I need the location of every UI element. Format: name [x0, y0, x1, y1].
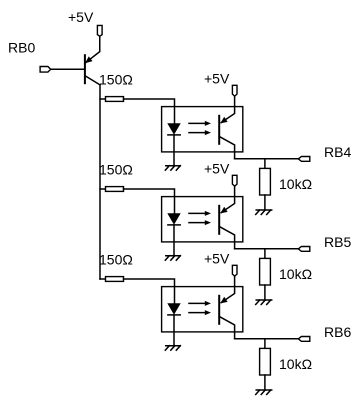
opto1 light arrow 2 — [189, 130, 211, 135]
wire: +5V to opto1 collector — [221, 96, 234, 122]
wire: 150Ω to opto3 LED anode — [124, 279, 175, 304]
optocoupler opto3 body — [162, 287, 243, 332]
opto1 LED diode — [167, 123, 180, 135]
power connector +5V (top) — [97, 25, 102, 36]
wire: output node to 10kΩ (row 2) — [264, 249, 266, 259]
svg-text:10kΩ: 10kΩ — [279, 266, 312, 282]
opto2 light arrow 1 — [189, 211, 211, 216]
svg-text:RB4: RB4 — [324, 144, 351, 160]
wire: 150Ω to opto1 LED anode — [124, 99, 175, 124]
wire: 150Ω to opto2 LED anode — [124, 189, 175, 214]
ground (row 2 pull-down) — [256, 300, 272, 305]
wire: opto2 LED cathode to ground — [173, 225, 175, 256]
port connector RB6 — [298, 337, 310, 342]
opto1 light arrow 1 — [189, 121, 211, 126]
opto3 collector arrow — [220, 297, 227, 304]
port connector RB4 — [298, 157, 310, 162]
opto1 emitter lead — [219, 136, 234, 158]
opto3 light arrow 2 — [189, 310, 211, 315]
wire: bus to 150Ω resistor (row 1) — [100, 98, 106, 100]
wire: opto3 LED cathode to ground — [173, 315, 175, 346]
wire: bus to 150Ω resistor (row 3) — [100, 278, 106, 280]
wire: bus to 150Ω resistor (row 2) — [100, 188, 106, 190]
svg-text:+5V: +5V — [204, 250, 230, 266]
opto2 emitter lead — [219, 226, 234, 248]
svg-text:150Ω: 150Ω — [99, 72, 133, 88]
svg-text:+5V: +5V — [204, 70, 230, 86]
wire: RB0 to Q1 base — [51, 68, 85, 70]
wire: +5V connector to Q1 emitter — [86, 36, 100, 62]
wire: opto2 output to RB5 — [235, 248, 298, 250]
wire: opto3 output to RB6 — [235, 338, 298, 340]
svg-text:RB6: RB6 — [324, 324, 351, 340]
power connector +5V (row 3) — [232, 265, 237, 276]
svg-text:10kΩ: 10kΩ — [279, 356, 312, 372]
wire: +5V to opto2 collector — [221, 186, 234, 212]
svg-text:10kΩ: 10kΩ — [279, 176, 312, 192]
opto2 LED cathode bar — [168, 224, 180, 226]
opto3 phototransistor base bar — [218, 295, 220, 325]
opto1 LED cathode bar — [168, 134, 180, 136]
transistor Q1 emitter arrow — [85, 56, 93, 63]
port connector RB0 — [40, 67, 51, 73]
opto3 LED cathode bar — [168, 314, 180, 316]
wire: opto1 LED cathode to ground — [173, 135, 175, 166]
wire: collector bus — [99, 85, 101, 279]
ground (opto3 LED) — [165, 346, 180, 351]
opto2 phototransistor base bar — [218, 205, 220, 235]
opto2 LED diode — [167, 213, 180, 225]
wire: opto1 output to RB4 — [235, 158, 298, 160]
ground (row 1 pull-down) — [256, 210, 272, 215]
opto2 light arrow 2 — [189, 220, 211, 225]
opto2 collector arrow — [220, 207, 227, 214]
wire: +5V to opto3 collector — [221, 276, 234, 302]
resistor 10kΩ (row 3) — [260, 348, 271, 375]
ground (opto2 LED) — [165, 256, 180, 261]
resistor 150Ω (row 1) — [106, 97, 124, 102]
opto1 collector arrow — [220, 117, 227, 124]
wire: output node to 10kΩ (row 3) — [264, 339, 266, 349]
svg-text:+5V: +5V — [204, 160, 230, 176]
svg-text:+5V: +5V — [68, 9, 94, 25]
resistor 150Ω (row 2) — [106, 187, 124, 192]
opto3 LED diode — [167, 303, 180, 315]
power connector +5V (row 2) — [232, 175, 237, 186]
optocoupler opto1 body — [162, 107, 243, 152]
wire: Q1 collector — [85, 76, 100, 85]
resistor 150Ω (row 3) — [106, 277, 124, 282]
svg-text:RB5: RB5 — [324, 234, 351, 250]
transistor Q1 base bar — [84, 54, 86, 84]
opto3 emitter lead — [219, 316, 234, 338]
opto1 phototransistor base bar — [218, 115, 220, 145]
ground (row 3 pull-down) — [256, 390, 272, 395]
port connector RB5 — [298, 247, 310, 252]
power connector +5V (row 1) — [232, 85, 237, 96]
svg-text:150Ω: 150Ω — [99, 252, 133, 268]
svg-text:150Ω: 150Ω — [99, 162, 133, 178]
wire: 10kΩ to ground (row 1) — [264, 195, 266, 210]
resistor 10kΩ (row 1) — [260, 168, 271, 195]
wire: 10kΩ to ground (row 2) — [264, 285, 266, 300]
svg-text:RB0: RB0 — [8, 40, 35, 56]
wire: 10kΩ to ground (row 3) — [264, 375, 266, 390]
resistor 10kΩ (row 2) — [260, 258, 271, 285]
opto3 light arrow 1 — [189, 301, 211, 306]
optocoupler opto2 body — [162, 197, 243, 242]
wire: output node to 10kΩ (row 1) — [264, 159, 266, 169]
ground (opto1 LED) — [165, 166, 180, 171]
